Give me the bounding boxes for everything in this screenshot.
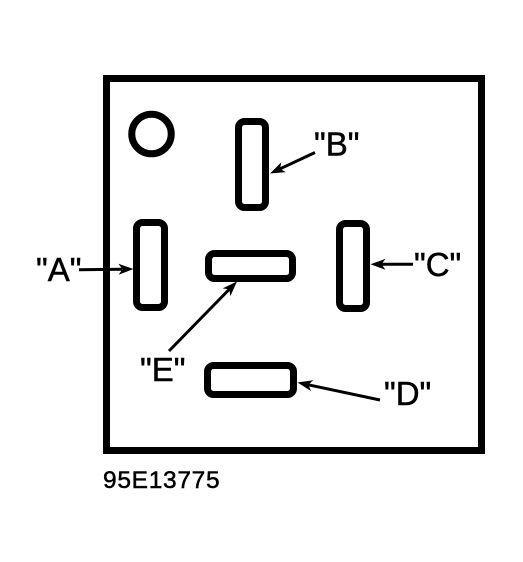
arrow to slot A <box>79 264 134 275</box>
svg-text:"D": "D" <box>384 375 431 412</box>
svg-text:"E": "E" <box>140 351 185 388</box>
svg-text:"C": "C" <box>414 246 461 283</box>
connector body outline <box>107 79 482 451</box>
terminal slot D <box>208 366 294 395</box>
svg-text:95E13775: 95E13775 <box>103 467 220 494</box>
arrow to slot E <box>169 282 237 352</box>
arrow to slot C <box>371 259 414 270</box>
terminal slot C <box>340 224 367 309</box>
terminal slot A <box>137 223 165 308</box>
terminal slot B <box>239 122 266 208</box>
keying hole (circle) <box>132 114 172 154</box>
svg-text:"A": "A" <box>36 251 81 288</box>
arrow to slot B <box>270 153 315 174</box>
terminal slot E <box>209 254 293 279</box>
svg-text:"B": "B" <box>314 126 359 163</box>
arrow to slot D <box>298 380 381 400</box>
